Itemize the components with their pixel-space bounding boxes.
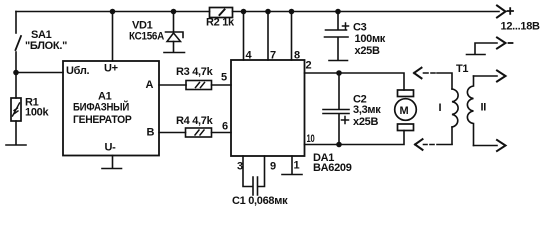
svg-text:Uбл.: Uбл.: [66, 65, 90, 77]
svg-text:R2 1k: R2 1k: [206, 17, 235, 29]
svg-text:U-: U-: [105, 142, 117, 154]
svg-text:ГЕНЕРАТОР: ГЕНЕРАТОР: [73, 114, 132, 126]
svg-text:3,3мк: 3,3мк: [353, 104, 381, 116]
svg-text:C1 0,068мк: C1 0,068мк: [232, 195, 288, 207]
svg-text:7: 7: [270, 50, 276, 62]
svg-text:КС156А: КС156А: [129, 31, 164, 43]
svg-text:12...18В: 12...18В: [501, 21, 541, 33]
svg-text:R3 4,7k: R3 4,7k: [176, 66, 214, 78]
svg-text:8: 8: [294, 50, 300, 62]
svg-text:3: 3: [237, 161, 243, 173]
svg-text:U+: U+: [104, 63, 118, 75]
svg-text:M: M: [400, 105, 409, 117]
svg-text:1: 1: [294, 160, 300, 172]
svg-text:БИФАЗНЫЙ: БИФАЗНЫЙ: [73, 101, 129, 114]
svg-text:T1: T1: [456, 63, 468, 75]
svg-text:x25В: x25В: [355, 45, 380, 57]
svg-text:R4 4,7k: R4 4,7k: [176, 115, 214, 127]
svg-text:100k: 100k: [25, 107, 49, 119]
svg-text:9: 9: [270, 161, 276, 173]
svg-text:"БЛОК.": "БЛОК.": [25, 40, 67, 52]
svg-text:6: 6: [222, 121, 228, 133]
svg-text:A: A: [146, 79, 154, 91]
svg-text:B: B: [147, 127, 155, 139]
svg-text:10: 10: [307, 133, 315, 145]
svg-text:5: 5: [221, 72, 227, 84]
svg-text:II: II: [481, 102, 487, 114]
svg-text:2: 2: [306, 60, 312, 72]
svg-text:100мк: 100мк: [355, 33, 386, 45]
svg-text:BA6209: BA6209: [313, 162, 352, 174]
svg-text:I: I: [439, 102, 442, 114]
svg-text:x25В: x25В: [353, 116, 378, 128]
svg-text:C3: C3: [353, 22, 367, 34]
